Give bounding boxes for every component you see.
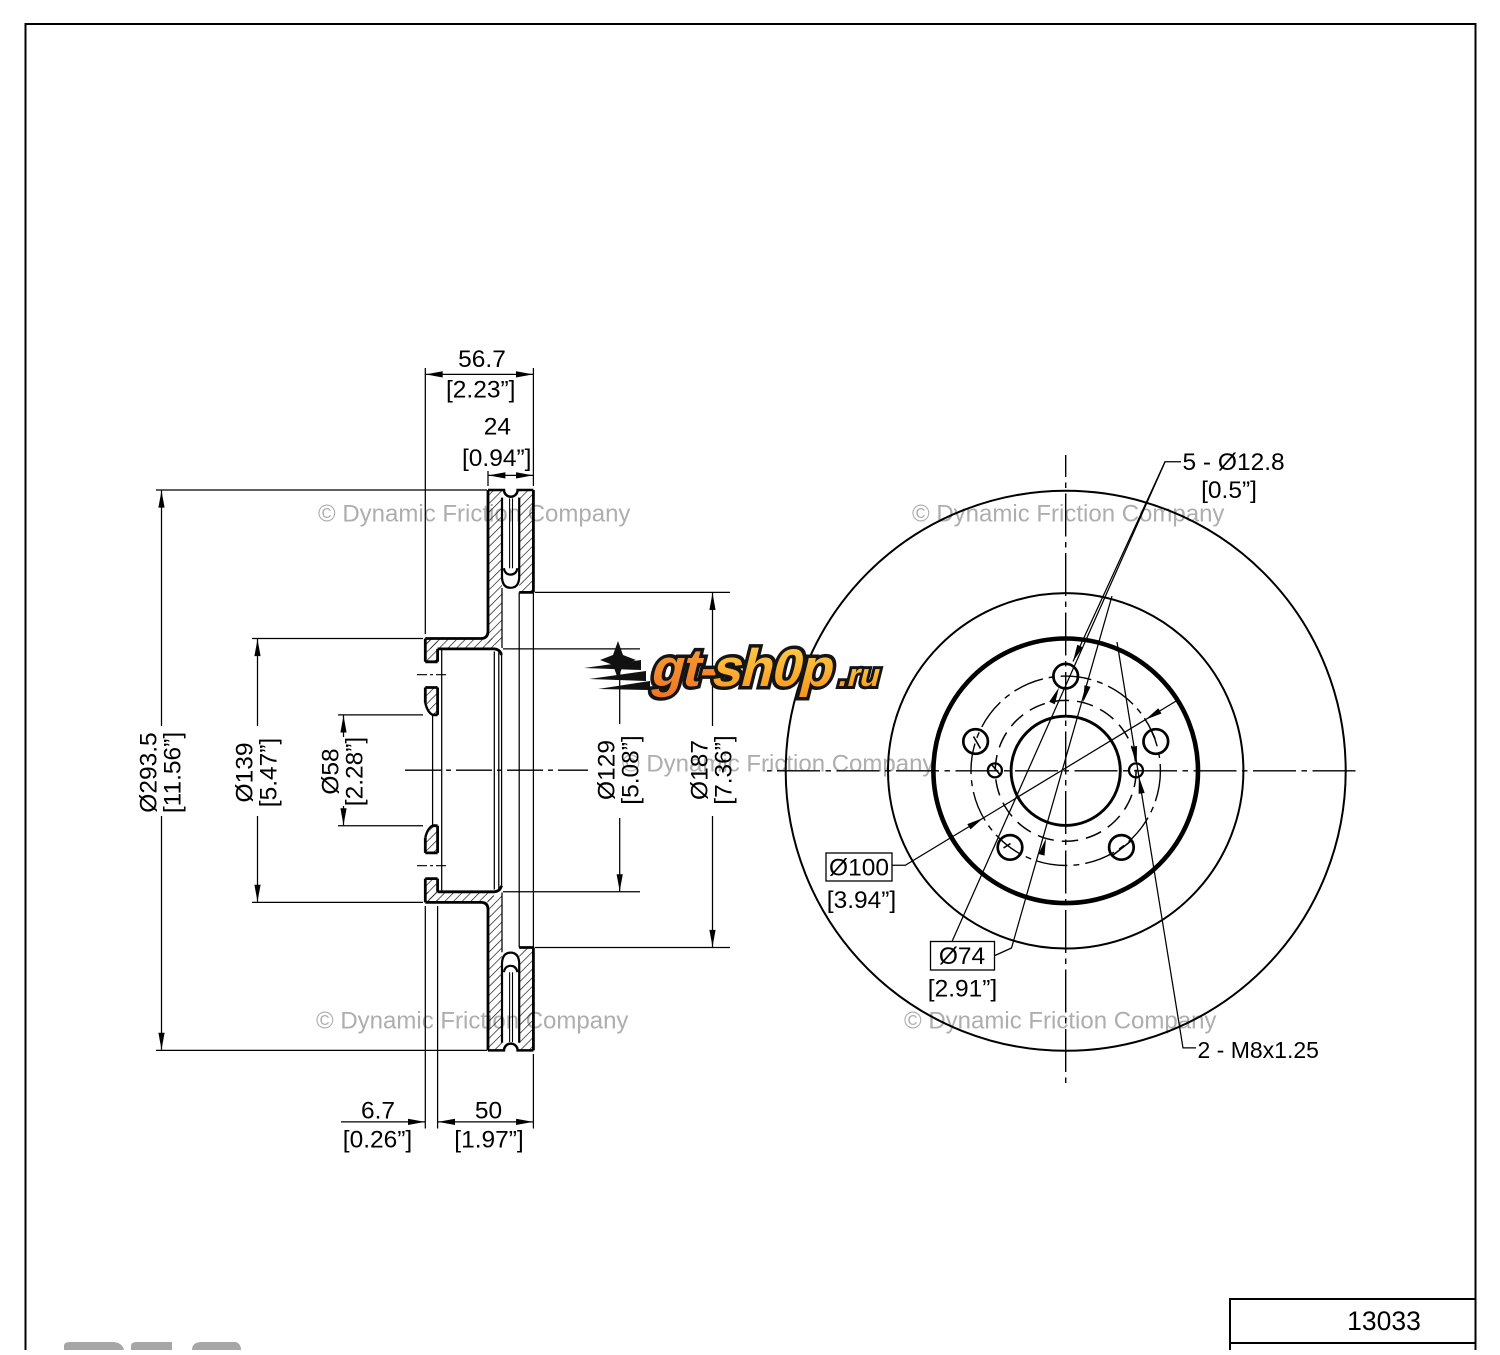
stud hole edges in hat plate — [425, 662, 437, 879]
outer circle Dia293.5 — [786, 491, 1346, 1051]
dim 6.7 — [341, 1121, 425, 1123]
vent rib lines top — [510, 498, 513, 568]
circle Dia187 friction ring inner — [888, 593, 1243, 948]
rotor top friction face with vent groove — [488, 490, 533, 497]
ext inboard face stub — [487, 471, 489, 486]
hatching: hat top wall — [425, 639, 494, 649]
dia74 dimension diameter line with elbow to box — [995, 596, 1112, 956]
rotated dim text dia129 — [594, 735, 645, 804]
svg-text:© Dynamic Friction Company: © Dynamic Friction Company — [316, 1008, 628, 1035]
svg-text:6.7: 6.7 — [361, 1098, 395, 1125]
dim Dia58 — [343, 716, 345, 826]
ext ring ID bottom — [535, 947, 730, 949]
dia100 boxed label — [826, 853, 892, 881]
hatching: outboard plate bottom — [519, 948, 533, 1051]
front view centerline vertical — [1065, 455, 1067, 1087]
bolt circle Dia100 dash-dot — [971, 676, 1160, 865]
dim 56.7 — [425, 373, 533, 375]
svg-text:56.7: 56.7 — [458, 346, 506, 373]
hub register circle Dia74 dashed — [995, 700, 1136, 841]
rotated dim text dia139 — [232, 738, 283, 807]
svg-text:2 - M8x1.25: 2 - M8x1.25 — [1198, 1037, 1319, 1063]
front view centerline horizontal — [767, 770, 1360, 772]
rotor bottom friction face with vent groove — [488, 1044, 533, 1051]
hat circle Dia139 thick — [933, 639, 1198, 904]
hat wall inner edges with fillets — [438, 649, 502, 655]
svg-text:[3.94”]: [3.94”] — [827, 887, 896, 914]
svg-text:[0.5”]: [0.5”] — [1201, 477, 1257, 504]
leader line to hub register box — [952, 462, 1165, 942]
hat mounting face segments — [424, 639, 427, 903]
vent slot inner closure bottom — [504, 966, 518, 972]
dim 24 — [488, 474, 533, 476]
vent outer closure bottom — [502, 953, 519, 963]
tick in upper-right bolt hole — [1152, 731, 1156, 739]
bore chamfer fillets — [425, 703, 432, 838]
ext bore bottom — [338, 825, 423, 827]
svg-text:[2.91”]: [2.91”] — [928, 976, 997, 1003]
hatching: hat bottom wall — [425, 892, 494, 903]
svg-text:[0.26”]: [0.26”] — [343, 1127, 412, 1154]
section centerline — [405, 769, 588, 771]
svg-text:© Dynamic Friction Company: © Dynamic Friction Company — [318, 501, 630, 528]
rotated dim text dia293.5 — [136, 732, 187, 813]
svg-text:[5.47”]: [5.47”] — [255, 738, 282, 807]
svg-text:24: 24 — [484, 414, 511, 441]
interior silhouette lines — [501, 655, 503, 886]
bolt hole upper-right — [1144, 729, 1169, 754]
hatching: outboard plate top — [519, 490, 533, 592]
ext bore top — [338, 714, 423, 716]
title block — [1230, 1299, 1476, 1350]
rotated dim text dia187 — [687, 735, 738, 804]
vent outer closure top — [502, 578, 519, 588]
vent rib lines bottom — [510, 972, 513, 1042]
svg-text:13033: 13033 — [1347, 1306, 1421, 1336]
leader 2-M8x1.25 — [1117, 642, 1196, 1048]
outboard plate top segment — [519, 490, 533, 592]
ext hat faces bottom verticals — [424, 906, 426, 1129]
ext hat OD top — [252, 638, 423, 640]
ext hat OD bottom — [252, 901, 423, 903]
center bore Dia58 — [1011, 716, 1120, 825]
dim Dia187 — [712, 593, 714, 947]
inboard face and hat top wall outer edge — [425, 490, 488, 639]
inboard plate vent-side edge top — [501, 498, 503, 578]
bore edges — [433, 715, 438, 826]
svg-text:[7.36”]: [7.36”] — [710, 735, 737, 804]
DFC logo top slivers — [64, 1342, 124, 1350]
ext ring ID top — [535, 591, 730, 593]
M8 service hole left — [988, 763, 1002, 777]
bolt hole upper-left — [963, 729, 988, 754]
svg-text:[11.56”]: [11.56”] — [159, 732, 186, 813]
hatching: inboard plate bottom — [488, 896, 502, 1050]
bolt hole lower-left — [998, 835, 1023, 860]
dim Dia129 — [619, 650, 621, 892]
ext mounting face vertical — [424, 368, 426, 634]
tick in upper-left bolt hole — [974, 737, 981, 749]
hatching: hat plate — [425, 639, 437, 903]
stud hole centerlines — [417, 674, 446, 676]
M8 service hole right — [1129, 763, 1143, 777]
svg-text:[1.97”]: [1.97”] — [454, 1127, 523, 1154]
bolt hole lower-right — [1109, 835, 1134, 860]
ext OD top — [156, 489, 487, 491]
svg-text:[2.23”]: [2.23”] — [446, 377, 515, 404]
dim Dia293.5 — [161, 491, 163, 1050]
rotor section hatching: inboard plate top — [488, 490, 502, 645]
leader 5-Dia12.8 — [1073, 462, 1181, 662]
svg-text:5 - Ø12.8: 5 - Ø12.8 — [1183, 449, 1285, 476]
ext hat ID top — [503, 648, 640, 650]
vent slot inner closure top — [504, 568, 518, 574]
tick in lower-left bolt hole — [1004, 844, 1011, 849]
svg-text:Ø100: Ø100 — [829, 855, 889, 882]
outboard plate bottom segment — [519, 948, 533, 1051]
dim 50 — [438, 1121, 534, 1123]
dia100 dimension diameter line — [892, 701, 1177, 866]
svg-text:sh0p: sh0p — [707, 639, 841, 698]
ext outboard face vertical — [532, 368, 534, 486]
rotated dim text dia58 — [318, 737, 369, 806]
tick in left M8 hole — [991, 764, 1000, 775]
hat plate inner face segments — [436, 649, 439, 892]
inboard face bottom and hat bottom wall outer edge — [425, 902, 488, 1050]
dia74 boxed label — [931, 942, 995, 971]
tick in lower-right bolt hole — [1113, 841, 1132, 856]
bolt hole top — [1053, 664, 1078, 689]
ext hat ID bottom — [503, 891, 640, 893]
ext OD bottom — [156, 1049, 487, 1051]
svg-text:[5.08”]: [5.08”] — [618, 735, 645, 804]
svg-text:[2.28”]: [2.28”] — [341, 737, 368, 806]
svg-text:Ø74: Ø74 — [939, 943, 985, 970]
dim Dia139 — [257, 639, 259, 902]
svg-text:50: 50 — [475, 1098, 502, 1125]
gt-shop.ru watermark logo — [584, 639, 890, 698]
svg-text:[0.94”]: [0.94”] — [462, 445, 531, 472]
